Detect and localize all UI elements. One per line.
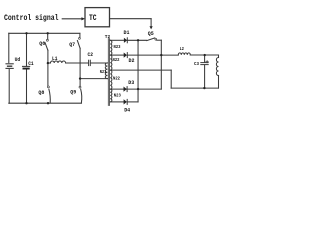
svg-text:TC: TC [89, 14, 97, 23]
svg-text:N23: N23 [114, 92, 121, 98]
svg-text:Q5: Q5 [148, 30, 155, 37]
svg-text:D4: D4 [124, 108, 131, 114]
svg-text:Ud: Ud [15, 56, 21, 63]
svg-text:Control signal: Control signal [4, 14, 59, 23]
svg-text:N21: N21 [100, 69, 107, 75]
svg-text:Q6: Q6 [39, 40, 45, 47]
svg-text:Q9: Q9 [70, 89, 76, 96]
svg-text:Q7: Q7 [69, 41, 75, 48]
svg-text:C3: C3 [194, 61, 199, 67]
svg-text:T2: T2 [105, 34, 111, 40]
svg-text:D1: D1 [124, 30, 130, 36]
svg-text:Q8: Q8 [38, 89, 45, 96]
svg-text:C1: C1 [28, 61, 34, 67]
svg-text:N23: N23 [114, 44, 121, 50]
svg-text:L1: L1 [52, 56, 58, 62]
svg-text:D3: D3 [128, 80, 134, 86]
svg-text:C2: C2 [88, 52, 94, 58]
svg-text:D2: D2 [129, 58, 135, 64]
svg-text:N22: N22 [113, 57, 120, 63]
svg-text:N22: N22 [113, 75, 120, 81]
svg-text:L2: L2 [180, 46, 185, 52]
